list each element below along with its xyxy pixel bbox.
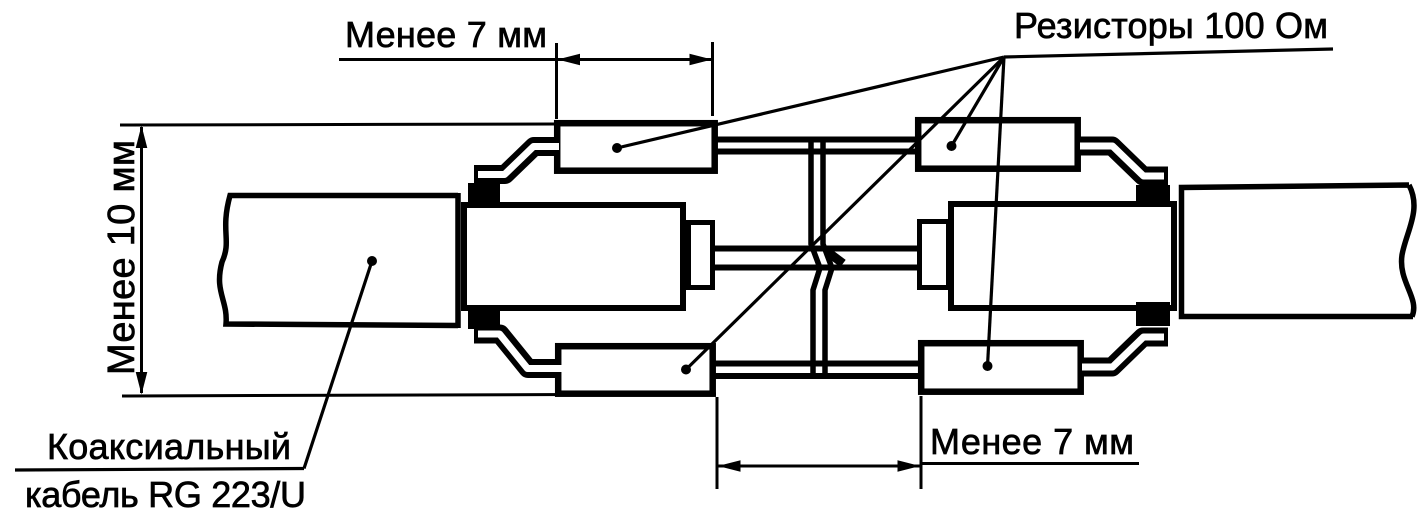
dim top: dimension line	[339, 58, 713, 61]
solder blob bottom-left	[468, 308, 500, 329]
strap bottom-left outer	[474, 334, 561, 369]
dim top: arrowhead right	[690, 54, 713, 65]
dim bottom: text underline	[921, 462, 1139, 465]
left connector center pin	[689, 223, 713, 288]
dim bottom: extension line left	[716, 397, 719, 489]
strap bottom-right outer	[1081, 337, 1168, 367]
svg-text:Менее 7 мм: Менее 7 мм	[345, 14, 547, 55]
right connector center pin	[920, 222, 949, 288]
resistor R2 top-right	[918, 120, 1077, 169]
leader dot R1	[612, 143, 622, 153]
dim 10mm: vertical dimension line	[140, 127, 143, 393]
leader to resistor R4	[988, 57, 1005, 366]
svg-text:Коаксиальный: Коаксиальный	[47, 426, 291, 467]
dim bottom: arrowhead left	[718, 460, 741, 472]
dim bottom: dimension line	[717, 465, 921, 468]
solder blob top-left	[468, 183, 500, 208]
cable label underline	[15, 469, 304, 471]
strap top-right inner white	[1080, 146, 1164, 176]
leader dot R4	[983, 361, 993, 371]
top lead wires	[716, 140, 917, 152]
svg-text:кабель RG 223/U: кабель RG 223/U	[25, 474, 306, 515]
right connector body	[951, 204, 1174, 308]
dim bottom: arrowhead right	[898, 460, 921, 472]
dim top: extension line right	[711, 42, 714, 116]
svg-text:Резисторы 100 Ом: Резисторы 100 Ом	[1014, 5, 1328, 46]
leader dot cable	[367, 256, 377, 266]
strap top-left inner white	[478, 147, 559, 175]
strap bottom-left inner white	[478, 334, 562, 369]
dim 10mm: top extension line	[120, 124, 556, 125]
svg-text:Менее 7 мм: Менее 7 мм	[930, 421, 1134, 462]
center conductor wires	[713, 249, 921, 268]
resistor R1 top-left	[557, 123, 715, 171]
left coax cable body	[220, 193, 458, 328]
svg-text:Менее 10 мм: Менее 10 мм	[101, 140, 143, 375]
resistor R4 bottom-right	[921, 343, 1080, 392]
leader to resistor R2	[952, 57, 1005, 146]
leader to resistor R1	[617, 57, 1004, 148]
center bridge wire right	[823, 137, 832, 380]
dim 10mm: arrowhead up	[136, 126, 148, 149]
right coax cable body	[1182, 185, 1414, 317]
leader dot R2	[947, 141, 957, 151]
leader to left cable	[304, 261, 372, 469]
solder blob top-right	[1136, 185, 1170, 207]
strap top-left outer	[474, 147, 558, 175]
left connector body	[464, 205, 683, 308]
leader to resistor R3	[686, 57, 1004, 370]
solder blob bottom-right	[1136, 302, 1170, 326]
dim top: extension line left	[555, 43, 558, 119]
bottom lead wires	[714, 364, 920, 377]
dim bottom: extension line right	[920, 396, 923, 489]
center bridge wire left	[811, 137, 820, 380]
dim 10mm: bottom extension line	[122, 394, 716, 396]
strap bottom-right inner white	[1082, 337, 1164, 367]
resistors label underline	[1004, 49, 1333, 57]
dim top: arrowhead left	[558, 54, 581, 65]
leader dot R3	[681, 365, 691, 375]
bridge jog blob	[827, 252, 843, 264]
dim 10mm: arrowhead down	[136, 372, 148, 395]
strap top-right outer	[1079, 146, 1168, 176]
resistor R3 bottom-left	[558, 346, 713, 394]
